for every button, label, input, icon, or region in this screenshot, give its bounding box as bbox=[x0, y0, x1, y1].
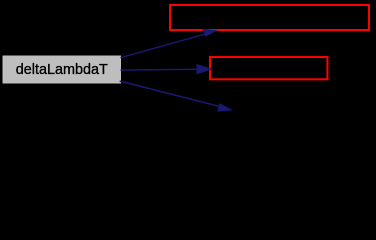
node deltaLambdaT (grey) bbox=[3, 56, 122, 84]
edge arrow 3 (to lower node, off-graph) bbox=[120, 81, 234, 112]
svg-text:deltaLambdaT: deltaLambdaT bbox=[16, 62, 108, 78]
edge arrow 2 (to middle red box) bbox=[121, 64, 213, 75]
node box top (red border) bbox=[170, 5, 369, 30]
node box middle (red border) bbox=[210, 57, 327, 79]
edge arrow 1 (to top red box) bbox=[121, 29, 219, 58]
